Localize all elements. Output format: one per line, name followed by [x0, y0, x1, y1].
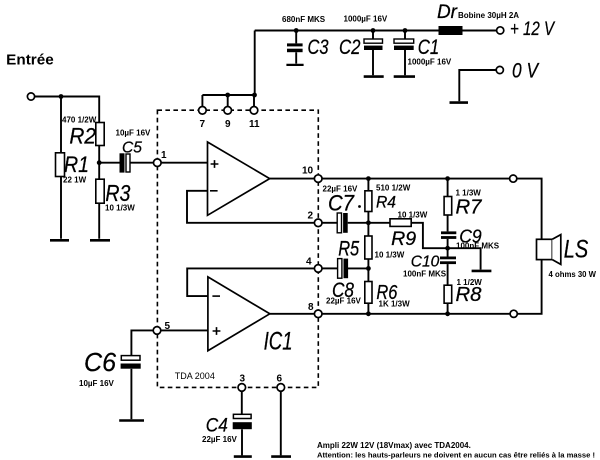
ground bar C1	[394, 75, 415, 78]
wire C9 to C10	[447, 239, 449, 257]
svg-text:Dr: Dr	[437, 1, 458, 23]
junction rail C2	[371, 28, 376, 33]
pin 2	[314, 219, 322, 227]
junction bracket pin 9	[225, 93, 230, 98]
resistor R4	[365, 191, 372, 212]
svg-text:10 1/3W: 10 1/3W	[375, 251, 405, 260]
pin 3	[238, 384, 246, 392]
node output top connector	[510, 175, 517, 182]
ground bar R1	[50, 239, 69, 242]
wire pin 10 net to speaker top	[322, 179, 542, 240]
wire C3 leads	[295, 31, 297, 64]
svg-text:R8: R8	[456, 284, 482, 306]
wire ground branch from C9-C10 junction	[448, 248, 481, 269]
wire R7 column top	[447, 179, 449, 232]
resistor R7	[444, 197, 452, 216]
label C7 dot	[358, 205, 361, 208]
svg-text:R3: R3	[105, 180, 130, 206]
inductor Dr (choke)	[439, 26, 463, 35]
capacitor C4 plates	[233, 414, 252, 429]
svg-text:4 ohms 30 W: 4 ohms 30 W	[549, 270, 597, 279]
svg-text:C10: C10	[411, 254, 440, 271]
wire C4 to ground	[241, 429, 243, 455]
op-amp IC1b minus input mark	[212, 295, 220, 297]
svg-text:680nF MKS: 680nF MKS	[282, 15, 326, 24]
svg-text:510 1/2W: 510 1/2W	[376, 184, 411, 193]
svg-text:10µF 16V: 10µF 16V	[79, 379, 115, 388]
capacitor C8 plates	[338, 259, 349, 279]
svg-text:0 V: 0 V	[512, 60, 540, 83]
wire pin 2 to C7	[322, 222, 337, 224]
junction R6 bottom	[366, 311, 371, 316]
op-amp IC1a minus input mark	[210, 190, 218, 192]
svg-text:4: 4	[306, 257, 312, 268]
speaker LS	[537, 235, 561, 265]
capacitor C6 plates	[121, 356, 141, 369]
pin 4	[314, 265, 322, 273]
node +12V terminal	[497, 27, 504, 34]
svg-text:6: 6	[277, 374, 283, 385]
pin 5	[153, 327, 161, 335]
resistor R3	[96, 179, 104, 203]
svg-text:C7: C7	[328, 191, 355, 216]
junction bracket riser	[252, 93, 257, 98]
resistor R6	[365, 282, 372, 304]
svg-text:R5: R5	[338, 238, 359, 261]
svg-text:3: 3	[240, 374, 246, 385]
resistor R5	[365, 236, 372, 259]
wire pin 4 to C8	[322, 267, 337, 269]
svg-text:C3: C3	[308, 35, 329, 59]
op-amp IC1b	[208, 277, 270, 351]
capacitor C3 plates	[287, 43, 303, 52]
capacitor C5 plates	[120, 153, 131, 172]
node input terminal	[27, 93, 34, 100]
svg-text:10 1/3W: 10 1/3W	[105, 204, 135, 213]
svg-text:LS: LS	[564, 236, 589, 264]
ground bar C3	[286, 64, 303, 66]
wire feedback op-amp IC1b minus to pin 4	[187, 268, 314, 296]
pin 10	[314, 175, 322, 183]
wire input to R2 top	[35, 97, 100, 123]
wire op-amp IC1b output to pin 8	[270, 313, 315, 315]
svg-text:1: 1	[161, 150, 167, 161]
svg-text:+ 12 V: + 12 V	[510, 19, 556, 40]
svg-text:Attention: les hauts-parleurs: Attention: les hauts-parleurs ne doivent…	[317, 451, 595, 460]
pin 8	[314, 310, 322, 318]
wire R2 to R3 to ground	[98, 146, 100, 239]
wire R4 column	[367, 179, 369, 223]
wire C8 to R5/R6 junction	[348, 267, 369, 269]
node output bottom connector	[510, 310, 517, 317]
capacitor C9 plates	[441, 231, 456, 239]
junction R4 top	[366, 176, 371, 181]
junction R2/R3/C5	[97, 160, 102, 165]
svg-text:C4: C4	[206, 415, 228, 437]
junction C8/R5/R6	[366, 266, 371, 271]
svg-text:22µF 16V: 22µF 16V	[326, 297, 362, 306]
ground bar pin 6	[271, 455, 291, 458]
junction R7 top	[445, 176, 450, 181]
svg-text:IC1: IC1	[264, 328, 293, 356]
wire C2 leads	[372, 31, 374, 76]
svg-text:22 1W: 22 1W	[63, 176, 87, 185]
svg-text:10 1/3W: 10 1/3W	[398, 211, 428, 220]
svg-text:5: 5	[165, 321, 171, 332]
svg-text:Bobine 30µH 2A: Bobine 30µH 2A	[458, 11, 519, 20]
junction R8 bottom	[445, 311, 450, 316]
svg-text:Entrée: Entrée	[6, 52, 53, 69]
wire C1 leads	[404, 31, 406, 76]
wire op-amp IC1a output to pin 10	[270, 178, 315, 180]
svg-text:C2: C2	[339, 35, 361, 59]
svg-text:10µF 16V: 10µF 16V	[116, 129, 152, 138]
svg-text:R7: R7	[456, 197, 483, 219]
resistor R9	[390, 219, 411, 227]
wire C7 to R9	[348, 222, 390, 224]
op-amp IC1b plus input mark	[213, 327, 221, 335]
svg-text:11: 11	[249, 119, 260, 130]
wire C6 to ground	[130, 369, 132, 419]
svg-text:10: 10	[302, 166, 314, 177]
ground bar C2	[364, 75, 384, 78]
svg-text:R1: R1	[64, 152, 89, 177]
capacitor C1 plates	[394, 39, 414, 50]
junction R4/C7/R9	[366, 220, 371, 225]
svg-text:1K 1/3W: 1K 1/3W	[379, 300, 411, 309]
junction rail C3	[294, 28, 299, 33]
wire pin 5 to C6	[131, 330, 153, 355]
junction input/R1	[59, 94, 64, 99]
ground bar C4	[234, 455, 252, 458]
wire pin 1 to op-amp	[161, 162, 208, 164]
pin 6	[277, 384, 285, 392]
svg-text:22µF 16V: 22µF 16V	[202, 435, 238, 444]
svg-text:TDA 2004: TDA 2004	[175, 371, 215, 381]
resistor R1	[56, 153, 65, 177]
wire C5 to pin 1	[130, 162, 153, 164]
pin 1	[154, 159, 162, 167]
svg-text:C5: C5	[122, 140, 142, 157]
svg-text:Ampli 22W 12V (18Vmax) avec TD: Ampli 22W 12V (18Vmax) avec TDA2004.	[317, 441, 471, 450]
svg-text:8: 8	[308, 302, 314, 313]
op-amp IC1a	[208, 142, 270, 215]
pin 9	[224, 107, 232, 115]
svg-text:9: 9	[225, 119, 231, 130]
wire 0V terminal	[459, 70, 496, 101]
svg-text:2: 2	[308, 211, 314, 222]
capacitor C10 plates	[440, 257, 456, 265]
svg-text:100nF MKS: 100nF MKS	[403, 270, 447, 279]
ground bar near C9/C10	[472, 270, 492, 273]
wire +12V rail	[255, 30, 497, 32]
node 0V terminal	[496, 66, 503, 73]
junction rail C1	[403, 28, 408, 33]
svg-text:7: 7	[200, 119, 206, 130]
wire supply riser	[254, 31, 256, 96]
svg-text:C6: C6	[84, 347, 117, 377]
wire R1 branch vertical	[60, 97, 62, 239]
ground bar 0V	[450, 101, 469, 104]
capacitor C7 plates	[337, 213, 348, 233]
wire pin 8 net bottom to speaker	[322, 260, 542, 314]
wire pin 3 to C4	[241, 391, 243, 414]
capacitor C2 plates	[364, 39, 383, 50]
wire R5 R6 column	[367, 223, 369, 314]
ground bar R3	[90, 239, 110, 242]
svg-text:C1: C1	[418, 35, 440, 59]
svg-text:100nF MKS: 100nF MKS	[456, 242, 500, 251]
wire junction to C5	[99, 162, 119, 164]
svg-text:R4: R4	[376, 193, 396, 212]
wire pins 7 9 11 bracket	[202, 95, 254, 110]
op-amp IC1a plus input mark	[211, 160, 219, 168]
junction C9/C10/ground	[445, 246, 450, 251]
wire R9 right to C9-C10 junction	[411, 223, 447, 248]
svg-text:R2: R2	[69, 124, 96, 149]
pin 7	[199, 107, 207, 115]
svg-text:1000µF 16V: 1000µF 16V	[344, 15, 388, 24]
resistor R8	[444, 285, 452, 303]
wire pin 6 to ground	[280, 391, 282, 455]
wire feedback op-amp IC1a minus to pin 2	[187, 191, 315, 223]
pin 11	[250, 107, 258, 115]
svg-text:R9: R9	[391, 229, 416, 250]
wire pin 5 to op-amp IC1b plus	[160, 329, 208, 331]
ground bar C6	[119, 419, 144, 422]
wire C10 to R8 to bottom	[447, 264, 449, 314]
resistor R2	[96, 123, 104, 146]
IC1 dashed boundary box	[157, 110, 318, 387]
